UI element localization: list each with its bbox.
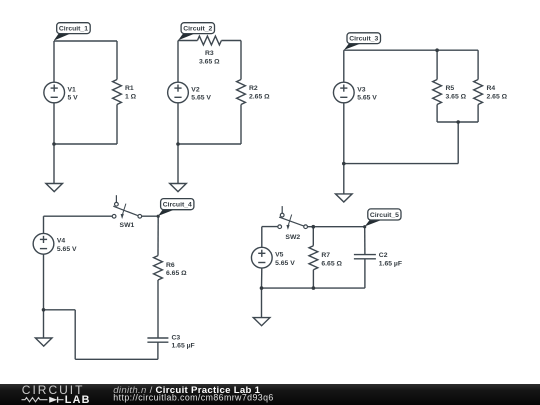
svg-text:http://circuitlab.com/cm86mrw7: http://circuitlab.com/cm86mrw7d93q6 — [113, 393, 273, 403]
svg-text:LAB: LAB — [65, 394, 91, 405]
